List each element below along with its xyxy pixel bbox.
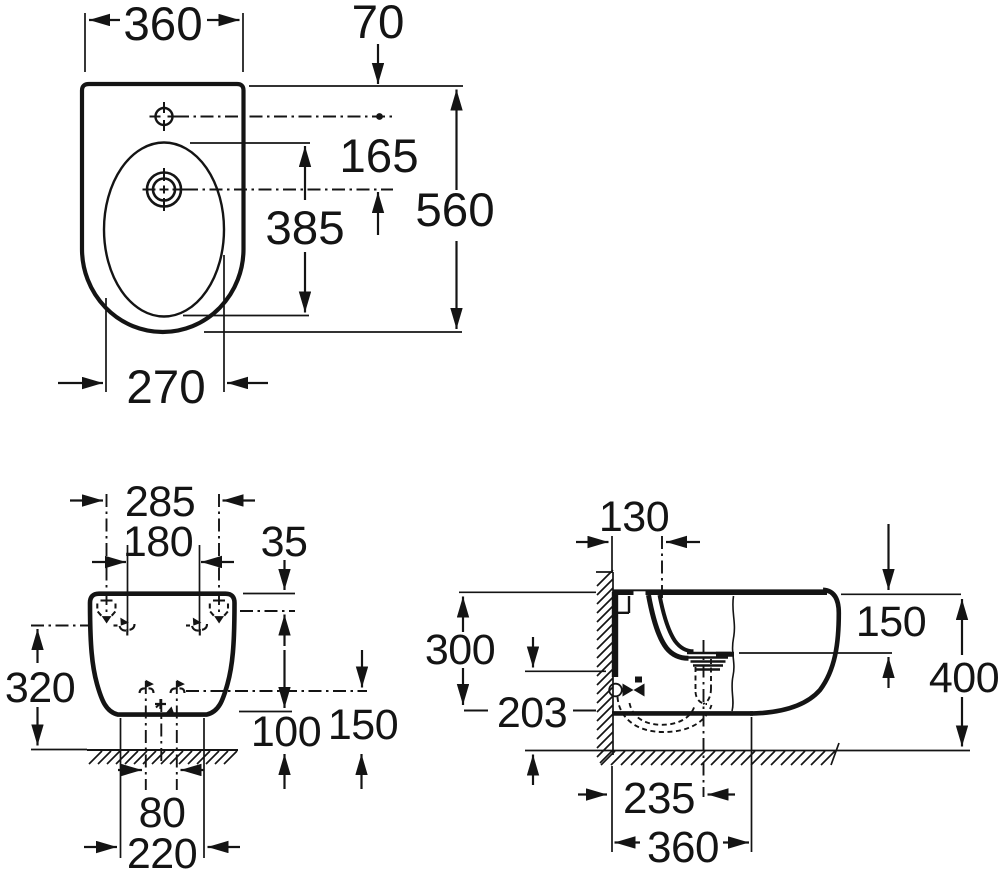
dim 100: arrow down to bottom line bbox=[283, 650, 285, 708]
reference line outline bottom bbox=[204, 331, 462, 333]
lower crosses centerline to right bbox=[186, 690, 367, 692]
dim 150: arrow up to floor bbox=[360, 754, 362, 789]
svg-text:35: 35 bbox=[261, 518, 308, 566]
bidet front outline bbox=[90, 594, 235, 715]
dim 100: reference line (bidet bottom extended) bbox=[239, 711, 292, 713]
dim 35: arrows bbox=[283, 560, 285, 590]
section break wavy line bbox=[732, 596, 734, 711]
drain centerline (side) bbox=[703, 640, 705, 797]
trap dashed outer curve bbox=[618, 697, 712, 732]
lower crosses vertical centerlines bbox=[146, 681, 177, 790]
lower holes centerline (left part) bbox=[31, 625, 88, 627]
dim 360: right extension bbox=[751, 717, 753, 852]
center plus symbol bbox=[155, 699, 166, 709]
bidet side: outer shell right curve bbox=[750, 590, 839, 714]
tap centerline (side) bbox=[661, 536, 663, 601]
dim 130: left extension bbox=[611, 536, 613, 573]
top reference line left (300) bbox=[459, 591, 596, 593]
svg-text:560: 560 bbox=[415, 184, 494, 237]
svg-text:360: 360 bbox=[123, 0, 202, 51]
wall hatching bbox=[597, 570, 613, 763]
dim 400: arrow down to floor bbox=[961, 697, 963, 747]
svg-text:220: 220 bbox=[127, 830, 197, 872]
inner bowl oval bbox=[104, 143, 224, 317]
floor hatching front bbox=[89, 751, 237, 764]
reference line top edge bbox=[249, 85, 463, 87]
dim 300: arrow down bbox=[462, 668, 464, 705]
dim 285: extension centerlines bbox=[107, 494, 220, 621]
dim 130: arrows bbox=[576, 541, 609, 543]
dim 150: arrow down to top bbox=[887, 524, 889, 590]
floor line front bbox=[87, 749, 238, 751]
dim 150: arrow up to level line bbox=[887, 657, 889, 688]
bidet outline (plan) bbox=[82, 84, 244, 332]
dim 360: arrows bbox=[89, 19, 120, 21]
reference line oval bottom bbox=[183, 315, 309, 317]
bowl section inner wall bbox=[660, 595, 694, 651]
floor line side bbox=[525, 750, 970, 752]
svg-text:400: 400 bbox=[929, 654, 999, 702]
svg-text:270: 270 bbox=[126, 361, 205, 414]
centerline through tap hole bbox=[176, 116, 393, 118]
wedge mark on bottom edge bbox=[165, 707, 175, 715]
dim 80: arrows bbox=[118, 769, 142, 771]
svg-text:360: 360 bbox=[647, 823, 719, 872]
dim 35: top reference line bbox=[243, 593, 295, 595]
drain hole bbox=[147, 173, 181, 207]
dim 560: arrow up to top edge line bbox=[455, 90, 457, 191]
reference line oval top bbox=[190, 142, 310, 144]
dim 35: bolt-hole centerline right bbox=[240, 610, 295, 612]
rim tap hole gap bbox=[634, 591, 646, 596]
dim 360: arrows (inside, pointing out) bbox=[615, 841, 641, 843]
top reference line right (150/400) bbox=[841, 593, 961, 595]
dim 360: extension lines bbox=[85, 13, 243, 72]
inlet height reference line bbox=[525, 670, 606, 672]
dim 180: extension lines bbox=[128, 545, 200, 632]
dim 270: extension lines bbox=[106, 255, 224, 392]
svg-text:235: 235 bbox=[623, 774, 695, 823]
dim 150: arrow down to holes centerline bbox=[361, 650, 363, 688]
svg-text:70: 70 bbox=[352, 0, 405, 49]
dim 320: arrow up to holes centerline bbox=[36, 629, 38, 663]
svg-text:130: 130 bbox=[599, 493, 669, 541]
dim 203: arrow down to inlet line bbox=[532, 637, 534, 668]
center vertical centerline bbox=[160, 699, 162, 763]
bidet side: top rim bbox=[613, 589, 827, 595]
drain template fixing marks bbox=[140, 682, 185, 694]
right 180-hole fixing mark bbox=[186, 620, 207, 636]
wall face line bbox=[612, 572, 614, 755]
water inlet valve bbox=[609, 684, 622, 697]
overflow level reference line bbox=[739, 652, 892, 654]
dim 560: arrow down to bottom line bbox=[455, 241, 457, 329]
svg-text:385: 385 bbox=[265, 202, 344, 255]
svg-text:320: 320 bbox=[5, 664, 75, 712]
svg-text:180: 180 bbox=[123, 518, 193, 566]
bidet side: back mounting bar bbox=[612, 592, 618, 677]
svg-text:300: 300 bbox=[425, 626, 495, 674]
drain strainer stack bbox=[687, 653, 731, 670]
centerline through drain hole bbox=[185, 189, 393, 191]
svg-text:150: 150 bbox=[328, 701, 398, 749]
wall top edge bbox=[596, 571, 613, 573]
dim 320: arrow down to floor line bbox=[36, 707, 38, 746]
dim 385: arrow down to oval bottom line bbox=[304, 252, 306, 313]
trap dashed outlet verticals bbox=[696, 659, 712, 692]
dim 203: label with leader dashes bbox=[464, 710, 596, 712]
dim 180: arrows bbox=[92, 561, 126, 563]
tap hole bbox=[156, 108, 173, 125]
dim 165: arrow up to drain centerline bbox=[377, 192, 379, 235]
dim 100: arrow up to floor bbox=[283, 754, 285, 789]
dim 385: arrow up to oval top line bbox=[304, 146, 306, 200]
floor reference line left bbox=[31, 749, 87, 751]
dim 400: arrow up to top bbox=[961, 599, 963, 655]
dim 203: arrow up to floor bbox=[532, 755, 534, 786]
dim 220: extension lines bbox=[121, 718, 205, 858]
back fixing notch bbox=[617, 596, 629, 613]
dim 235/360: left extension bbox=[611, 766, 613, 852]
dim 300: arrow up bbox=[462, 597, 464, 633]
trap dashed bend small bbox=[696, 688, 712, 704]
dot end of 70 dimension bbox=[376, 113, 383, 120]
drain right bar bbox=[716, 652, 734, 657]
dim 220: arrows bbox=[84, 846, 117, 848]
trap dashed inner curve bbox=[630, 703, 695, 725]
svg-text:100: 100 bbox=[251, 708, 321, 756]
svg-text:150: 150 bbox=[856, 598, 926, 646]
dim 235: arrows bbox=[578, 793, 607, 795]
floor hatching side bbox=[601, 743, 839, 765]
bidet side: bottom bbox=[612, 711, 753, 716]
dim 70: arrow down to top edge bbox=[377, 44, 379, 84]
dim 285: arrows bbox=[70, 499, 103, 501]
left wall-bolt hole (dashed) bbox=[97, 601, 115, 622]
dim 270: arrows bbox=[58, 382, 103, 384]
svg-text:165: 165 bbox=[339, 130, 418, 183]
bowl section outer wall bbox=[649, 595, 689, 658]
svg-text:203: 203 bbox=[497, 689, 567, 737]
right wall-bolt hole (dashed) bbox=[210, 601, 228, 622]
left 180-hole fixing mark bbox=[114, 620, 135, 636]
